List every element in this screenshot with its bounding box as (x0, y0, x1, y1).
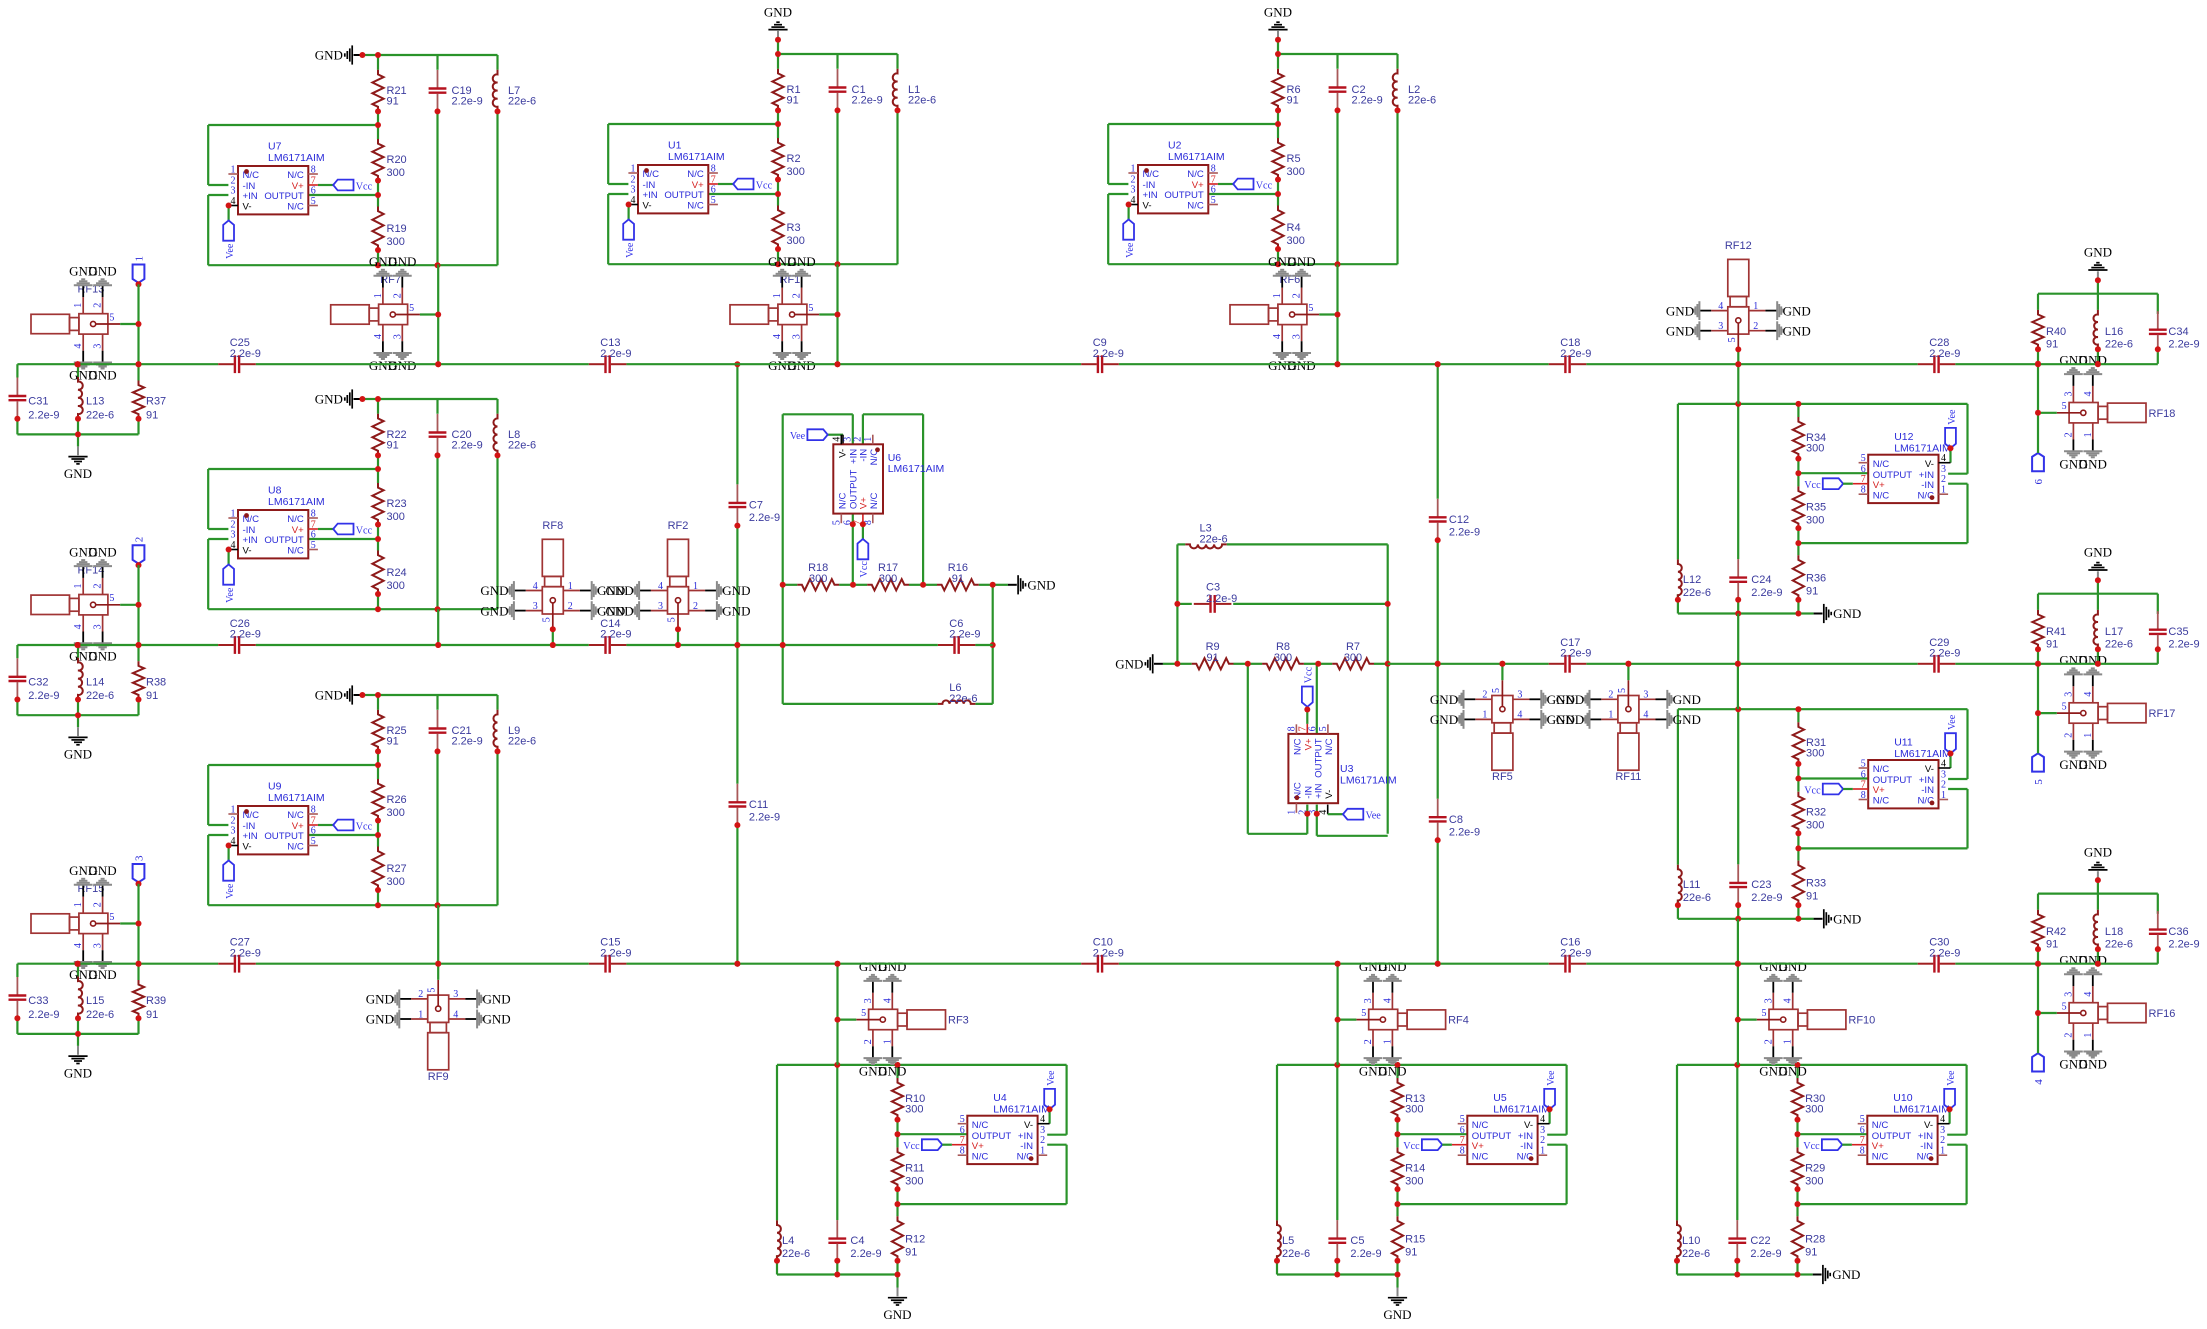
svg-text:L14: L14 (86, 676, 104, 688)
svg-text:8: 8 (1286, 726, 1297, 731)
svg-text:300: 300 (1405, 1175, 1423, 1187)
svg-text:N/C: N/C (972, 1120, 989, 1131)
svg-text:V-: V- (643, 201, 652, 212)
resistor R12 (892, 1216, 925, 1261)
op-amp U6 (831, 435, 944, 525)
svg-text:OUTPUT: OUTPUT (264, 191, 304, 202)
resistor R35 (1793, 486, 1826, 528)
svg-text:2.2e-9: 2.2e-9 (2168, 938, 2199, 950)
svg-text:300: 300 (387, 876, 405, 888)
svg-text:8: 8 (1460, 1146, 1465, 1157)
svg-text:V+: V+ (1472, 1141, 1484, 1152)
resistor R18 (783, 562, 853, 590)
svg-text:U11: U11 (1894, 736, 1913, 748)
svg-text:C35: C35 (2168, 626, 2188, 638)
op-amp U3 (1286, 724, 1396, 814)
svg-text:U7: U7 (268, 140, 282, 152)
svg-text:GND: GND (89, 649, 117, 664)
svg-text:L6: L6 (949, 682, 961, 694)
svg-text:8: 8 (311, 805, 316, 816)
svg-text:2.2e-9: 2.2e-9 (1929, 648, 1960, 660)
power flag Vcc U6 (850, 521, 870, 577)
svg-text:N/C: N/C (287, 170, 304, 181)
svg-text:4: 4 (453, 1009, 458, 1020)
net flag 1 (133, 256, 146, 287)
svg-text:8: 8 (311, 509, 316, 520)
junctions U7 (375, 52, 501, 268)
svg-text:2: 2 (133, 537, 145, 543)
capacitor C18 (1549, 337, 1592, 373)
wire trunk RF4 (1336, 964, 1338, 1065)
svg-text:3: 3 (133, 855, 145, 861)
ground input section (64, 1034, 92, 1081)
svg-text:Vee: Vee (1947, 409, 1958, 425)
ground input section (64, 715, 92, 762)
svg-text:1: 1 (882, 1039, 893, 1044)
svg-text:91: 91 (2046, 938, 2058, 950)
svg-text:L4: L4 (782, 1235, 794, 1247)
svg-text:N/C: N/C (1873, 796, 1890, 807)
svg-text:1: 1 (231, 805, 236, 816)
capacitor C13 (589, 337, 632, 373)
svg-text:2: 2 (1753, 321, 1758, 332)
capacitor C21 (429, 710, 483, 751)
svg-text:22e-6: 22e-6 (2105, 938, 2133, 950)
svg-text:6: 6 (311, 186, 316, 197)
svg-text:4: 4 (831, 437, 842, 442)
wire trunk U12-U11 (1737, 614, 1739, 710)
svg-text:2.2e-9: 2.2e-9 (230, 947, 261, 959)
resistor R41 (2032, 610, 2066, 651)
svg-text:U2: U2 (1168, 139, 1182, 151)
svg-text:R27: R27 (387, 863, 407, 875)
svg-text:R36: R36 (1806, 572, 1826, 584)
svg-text:2: 2 (852, 437, 863, 442)
svg-text:5: 5 (109, 593, 114, 604)
svg-text:22e-6: 22e-6 (908, 95, 936, 107)
svg-text:4: 4 (1040, 1114, 1045, 1125)
wire net U4 (777, 1065, 1067, 1275)
svg-text:-IN: -IN (1920, 1141, 1933, 1152)
svg-text:GND: GND (1833, 606, 1861, 621)
svg-text:Vee: Vee (225, 243, 236, 259)
inductor L14 (78, 658, 114, 702)
svg-text:V-: V- (243, 202, 252, 213)
svg-text:91: 91 (952, 573, 964, 585)
svg-text:V+: V+ (1872, 1141, 1884, 1152)
svg-text:2.2e-9: 2.2e-9 (452, 440, 483, 452)
inductor L17 (2093, 610, 2133, 651)
svg-text:N/C: N/C (287, 546, 304, 557)
svg-text:V+: V+ (1873, 785, 1885, 796)
svg-text:R3: R3 (787, 222, 801, 234)
svg-text:N/C: N/C (687, 169, 704, 180)
svg-text:22e-6: 22e-6 (2105, 339, 2133, 351)
wire net U1 (608, 54, 897, 264)
svg-text:4: 4 (2083, 392, 2094, 397)
svg-text:5: 5 (2062, 702, 2067, 713)
svg-text:6: 6 (2033, 479, 2045, 485)
capacitor C14 (589, 618, 632, 654)
svg-text:GND: GND (89, 368, 117, 383)
inductor L11 (1678, 865, 1711, 905)
svg-text:2.2e-9: 2.2e-9 (852, 95, 883, 107)
svg-text:8: 8 (711, 164, 716, 175)
svg-text:C34: C34 (2168, 326, 2188, 338)
power flag Vee U9 (223, 843, 236, 899)
inductor L12 (1678, 559, 1711, 599)
junctions U12 (1675, 401, 1802, 617)
svg-text:91: 91 (1805, 1246, 1817, 1258)
wire net input section R38 (17, 645, 138, 715)
svg-text:300: 300 (1287, 235, 1305, 247)
svg-text:GND: GND (606, 603, 634, 618)
svg-text:GND: GND (315, 48, 343, 63)
inductor L18 (2093, 910, 2133, 951)
svg-text:N/C: N/C (287, 514, 304, 525)
svg-text:5: 5 (1861, 453, 1866, 464)
svg-text:R40: R40 (2046, 326, 2066, 338)
svg-text:GND: GND (764, 4, 792, 19)
svg-text:R11: R11 (905, 1162, 924, 1174)
svg-text:300: 300 (1806, 514, 1824, 526)
junctions output section R40 (2035, 346, 2161, 367)
svg-text:300: 300 (387, 807, 405, 819)
svg-text:U3: U3 (1340, 763, 1354, 775)
capacitor C9 (1081, 337, 1124, 373)
svg-text:N/C: N/C (1872, 1120, 1889, 1131)
svg-text:300: 300 (1806, 442, 1824, 454)
svg-text:4: 4 (533, 581, 538, 592)
svg-text:2: 2 (1941, 780, 1946, 791)
svg-text:22e-6: 22e-6 (508, 440, 536, 452)
svg-text:2.2e-9: 2.2e-9 (230, 348, 261, 360)
resistor R20 (372, 139, 406, 181)
svg-text:3: 3 (1131, 185, 1136, 196)
junctions U6 (780, 582, 996, 648)
resistor R5 (1272, 138, 1304, 180)
ground output section (2084, 545, 2112, 584)
svg-text:22e-6: 22e-6 (1282, 1248, 1310, 1260)
svg-text:3: 3 (93, 624, 104, 629)
wire net flag 6 (2037, 364, 2039, 453)
svg-text:C12: C12 (1449, 514, 1469, 526)
junction RF14 (75, 602, 142, 648)
svg-text:LM6171AIM: LM6171AIM (1894, 748, 1951, 760)
svg-text:91: 91 (146, 690, 158, 702)
svg-text:Vcc: Vcc (356, 821, 373, 832)
svg-text:2.2e-9: 2.2e-9 (2168, 639, 2199, 651)
wire net output section R41 (2038, 580, 2158, 664)
capacitor C30 (1918, 937, 1961, 973)
svg-text:1: 1 (1131, 164, 1136, 175)
net flag 3 (133, 855, 146, 887)
resistor R39 (133, 980, 166, 1021)
svg-text:RF16: RF16 (2149, 1008, 2176, 1020)
svg-text:V-: V- (1925, 764, 1934, 775)
svg-text:3: 3 (1517, 690, 1522, 701)
capacitor C32 (9, 658, 60, 702)
svg-text:3: 3 (1718, 321, 1723, 332)
svg-text:Vee: Vee (1125, 242, 1136, 258)
svg-text:2: 2 (792, 293, 803, 298)
op-amp U1 (628, 139, 724, 213)
svg-text:Vcc: Vcc (1803, 1141, 1820, 1152)
svg-text:C36: C36 (2168, 926, 2188, 938)
power flag Vcc U10 (1803, 1139, 1852, 1152)
svg-text:GND: GND (1264, 4, 1292, 19)
svg-text:5: 5 (2062, 1001, 2067, 1012)
svg-text:R42: R42 (2046, 926, 2066, 938)
svg-text:3: 3 (1363, 998, 1374, 1003)
svg-text:4: 4 (2083, 992, 2094, 997)
svg-text:2: 2 (2063, 1033, 2074, 1038)
capacitor C19 (429, 70, 483, 111)
svg-text:3: 3 (2063, 392, 2074, 397)
svg-text:3: 3 (1763, 998, 1774, 1003)
RF connector RF11 (1556, 680, 1701, 783)
ground U9 rail (315, 685, 378, 704)
svg-text:91: 91 (387, 736, 399, 748)
ground U8 rail (315, 389, 378, 408)
wire net U12 (1678, 404, 1968, 614)
svg-text:C7: C7 (749, 500, 763, 512)
resistor R15 (1392, 1216, 1425, 1261)
resistor R19 (372, 207, 406, 251)
power flag Vee U2 (1123, 202, 1136, 258)
svg-text:R24: R24 (387, 567, 407, 579)
resistor R26 (372, 779, 406, 821)
resistor R13 (1392, 1078, 1425, 1120)
op-amp U7 (228, 140, 324, 214)
svg-text:Vcc: Vcc (356, 525, 373, 536)
svg-text:5: 5 (109, 912, 114, 923)
svg-text:5: 5 (2033, 779, 2045, 785)
svg-text:5: 5 (808, 303, 813, 314)
svg-text:Vee: Vee (1946, 1070, 1957, 1086)
svg-text:91: 91 (2046, 339, 2058, 351)
RF connector RF5 (1430, 680, 1575, 783)
svg-text:GND: GND (480, 583, 508, 598)
capacitor C2 (1329, 69, 1383, 110)
op-amp U4 (952, 1092, 1050, 1164)
svg-text:GND: GND (388, 358, 416, 373)
resistor R17 (853, 562, 923, 590)
ground U5 rail (1383, 1275, 1411, 1323)
svg-text:2: 2 (392, 293, 403, 298)
svg-text:2: 2 (1941, 474, 1946, 485)
svg-text:3: 3 (93, 943, 104, 948)
svg-text:91: 91 (2046, 639, 2058, 651)
svg-text:2.2e-9: 2.2e-9 (600, 348, 631, 360)
net flag 6 (2032, 453, 2045, 485)
svg-text:LM6171AIM: LM6171AIM (1893, 1104, 1950, 1116)
svg-text:C5: C5 (1350, 1235, 1364, 1247)
resistor R4 (1272, 206, 1304, 250)
svg-text:1: 1 (2083, 432, 2094, 437)
svg-text:2.2e-9: 2.2e-9 (949, 629, 980, 641)
RF connector RF2 (606, 520, 751, 630)
svg-text:+IN: +IN (643, 190, 658, 201)
svg-text:4: 4 (373, 334, 384, 339)
svg-text:R20: R20 (387, 154, 407, 166)
svg-text:2.2e-9: 2.2e-9 (749, 512, 780, 524)
svg-text:R12: R12 (905, 1233, 925, 1245)
svg-text:91: 91 (387, 96, 399, 108)
svg-text:91: 91 (1405, 1246, 1417, 1258)
resistor R8 (1248, 641, 1318, 669)
svg-text:6: 6 (1307, 726, 1318, 731)
ground U7 rail (315, 45, 378, 64)
capacitor C33 (9, 977, 60, 1021)
power flag Vcc U5 (1403, 1139, 1452, 1152)
svg-text:4: 4 (1783, 998, 1794, 1003)
svg-text:7: 7 (1860, 1135, 1865, 1146)
wire net output section R40 (2038, 280, 2158, 364)
svg-text:GND: GND (1378, 1063, 1406, 1078)
svg-text:4: 4 (1940, 1114, 1945, 1125)
svg-text:5: 5 (2062, 401, 2067, 412)
svg-text:1: 1 (1382, 1039, 1393, 1044)
svg-text:GND: GND (64, 747, 92, 762)
svg-text:LM6171AIM: LM6171AIM (268, 496, 325, 508)
svg-text:300: 300 (1287, 166, 1305, 178)
svg-text:2.2e-9: 2.2e-9 (1093, 348, 1124, 360)
svg-text:LM6171AIM: LM6171AIM (993, 1104, 1050, 1116)
op-amp U9 (228, 780, 324, 854)
svg-text:C33: C33 (28, 995, 48, 1007)
svg-text:GND: GND (366, 1012, 394, 1027)
junctions output section R41 (2035, 646, 2161, 667)
svg-text:300: 300 (387, 236, 405, 248)
svg-text:U5: U5 (1493, 1092, 1507, 1104)
junctions input section (14, 1015, 141, 1037)
svg-text:4: 4 (1941, 759, 1946, 770)
junctions U9 (375, 692, 501, 908)
svg-text:RF2: RF2 (668, 520, 689, 532)
svg-text:Vcc: Vcc (859, 561, 870, 578)
svg-text:LM6171AIM: LM6171AIM (1493, 1104, 1550, 1116)
power flag Vcc U9 (333, 820, 372, 833)
svg-text:LM6171AIM: LM6171AIM (1168, 151, 1225, 163)
svg-text:2: 2 (693, 601, 698, 612)
ground U12 rail (1798, 604, 1861, 623)
svg-text:GND: GND (1115, 657, 1143, 672)
svg-text:3: 3 (658, 601, 663, 612)
resistor R21 (372, 70, 406, 112)
svg-text:91: 91 (905, 1246, 917, 1258)
resistor R11 (892, 1147, 925, 1189)
net flag 2 (133, 537, 146, 568)
wire net U10 (1677, 1065, 1967, 1275)
svg-text:2.2e-9: 2.2e-9 (2168, 339, 2199, 351)
svg-text:2.2e-9: 2.2e-9 (1093, 947, 1124, 959)
svg-text:91: 91 (787, 95, 799, 107)
svg-text:LM6171AIM: LM6171AIM (268, 792, 325, 804)
svg-text:Vee: Vee (225, 587, 236, 603)
capacitor C31 (9, 378, 60, 422)
svg-text:4: 4 (1517, 710, 1522, 721)
wire net output section R42 (2038, 880, 2158, 964)
junctions wire top bus (75, 361, 2101, 367)
svg-text:91: 91 (146, 409, 158, 421)
svg-text:2.2e-9: 2.2e-9 (1750, 1248, 1781, 1260)
svg-text:91: 91 (1806, 891, 1818, 903)
svg-text:4: 4 (772, 334, 783, 339)
resistor R27 (372, 847, 406, 891)
svg-text:4: 4 (1718, 301, 1723, 312)
resistor R34 (1793, 417, 1826, 459)
svg-text:2.2e-9: 2.2e-9 (1560, 348, 1591, 360)
wire middle-left bus (17, 644, 992, 646)
junctions C12 column (1435, 361, 1441, 967)
wire trunk RF12 (1737, 349, 1739, 364)
svg-text:7: 7 (1861, 474, 1866, 485)
svg-text:V-: V- (1524, 1120, 1533, 1131)
svg-text:V-: V- (1924, 1120, 1933, 1131)
svg-text:2.2e-9: 2.2e-9 (1560, 648, 1591, 660)
power flag Vcc U7 (333, 180, 372, 193)
RF connector RF9 (366, 964, 511, 1083)
junction RF13 (75, 321, 142, 367)
svg-text:Vee: Vee (1046, 1070, 1057, 1086)
op-amp U12 (1853, 431, 1951, 503)
svg-text:GND: GND (2079, 457, 2107, 472)
resistor R25 (372, 710, 406, 752)
inductor L13 (78, 377, 114, 421)
junctions U2 (1275, 51, 1401, 267)
capacitor C12 (1429, 499, 1480, 540)
svg-text:5: 5 (1727, 337, 1738, 342)
capacitor C3 (1194, 582, 1237, 613)
svg-text:V-: V- (838, 449, 849, 458)
junction RF1 (835, 312, 841, 368)
wire bottom bus (17, 963, 2157, 965)
junctions input section (14, 697, 141, 719)
svg-text:N/C: N/C (1472, 1151, 1489, 1162)
svg-text:L17: L17 (2105, 626, 2123, 638)
svg-text:GND: GND (2084, 845, 2112, 860)
wire trunk RF7 (437, 264, 439, 364)
svg-text:+IN: +IN (1143, 190, 1158, 201)
svg-text:R2: R2 (787, 153, 801, 165)
wire trunk RF3 (836, 964, 838, 1065)
svg-text:V-: V- (243, 842, 252, 853)
wire net U7 (208, 55, 497, 265)
svg-text:22e-6: 22e-6 (86, 690, 114, 702)
RF connector RF10 (1738, 959, 1875, 1078)
svg-text:1: 1 (231, 165, 236, 176)
resistor R38 (133, 661, 166, 702)
svg-text:1: 1 (1272, 293, 1283, 298)
RF connector RF18 (2038, 352, 2175, 471)
svg-text:GND: GND (1666, 323, 1694, 338)
junction trunk U11-bus (1735, 961, 1741, 967)
svg-text:Vee: Vee (625, 242, 636, 258)
wire middle-right bus (1388, 663, 2158, 665)
svg-text:2.2e-9: 2.2e-9 (1449, 826, 1480, 838)
svg-text:1: 1 (73, 303, 84, 308)
svg-text:R33: R33 (1806, 878, 1826, 890)
svg-text:1: 1 (863, 437, 874, 442)
capacitor C28 (1918, 337, 1961, 373)
svg-text:R37: R37 (146, 396, 166, 408)
svg-text:2.2e-9: 2.2e-9 (28, 409, 59, 421)
svg-text:OUTPUT: OUTPUT (1164, 190, 1204, 201)
wire trunk RF1 (836, 264, 838, 364)
svg-text:Vee: Vee (225, 883, 236, 899)
svg-text:1: 1 (2083, 1033, 2094, 1038)
